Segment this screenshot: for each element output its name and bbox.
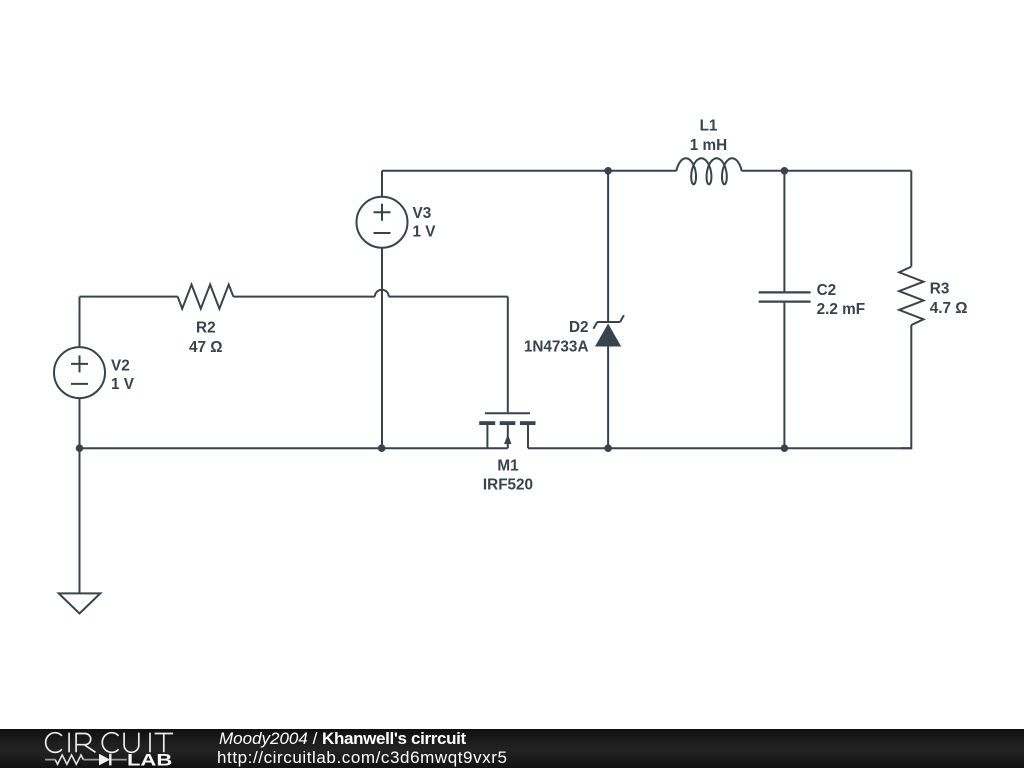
svg-text:1 V: 1 V: [111, 376, 135, 393]
svg-text:47 Ω: 47 Ω: [189, 339, 223, 356]
svg-text:1 mH: 1 mH: [690, 137, 727, 154]
svg-text:1N4733A: 1N4733A: [524, 339, 589, 356]
svg-text:V2: V2: [111, 357, 130, 374]
svg-text:1 V: 1 V: [413, 224, 437, 241]
svg-text:IRF520: IRF520: [483, 477, 533, 494]
svg-text:D2: D2: [569, 319, 589, 336]
svg-text:C2: C2: [817, 282, 837, 299]
svg-text:R3: R3: [930, 280, 950, 297]
svg-text:LAB: LAB: [127, 751, 172, 768]
svg-text:4.7 Ω: 4.7 Ω: [930, 300, 968, 317]
svg-text:M1: M1: [497, 458, 519, 475]
svg-text:L1: L1: [700, 118, 718, 135]
svg-text:V3: V3: [413, 205, 432, 222]
svg-text:2.2 mF: 2.2 mF: [817, 301, 865, 318]
svg-text:R2: R2: [196, 319, 216, 336]
